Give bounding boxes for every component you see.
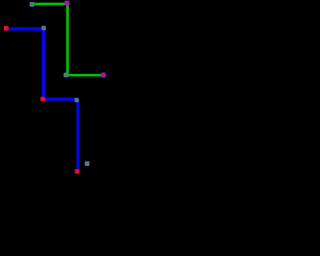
node H teal <box>75 98 79 102</box>
wire blue vertical F-G <box>42 29 45 99</box>
node A teal <box>30 2 35 7</box>
wire green horizontal A-B <box>32 3 68 6</box>
node B purple <box>65 1 70 6</box>
wire green horizontal C-D <box>66 74 103 76</box>
wire blue horizontal G-H <box>43 98 77 101</box>
node E red <box>4 26 9 31</box>
node J teal <box>85 161 90 166</box>
wire blue horizontal E-F <box>6 27 44 30</box>
node D purple <box>101 73 106 78</box>
wire green vertical B-C <box>66 4 69 75</box>
wire blue vertical H-I <box>77 100 80 171</box>
node C teal <box>64 73 69 78</box>
node G red <box>40 97 45 102</box>
node I red <box>75 169 80 174</box>
node F teal <box>42 26 46 30</box>
